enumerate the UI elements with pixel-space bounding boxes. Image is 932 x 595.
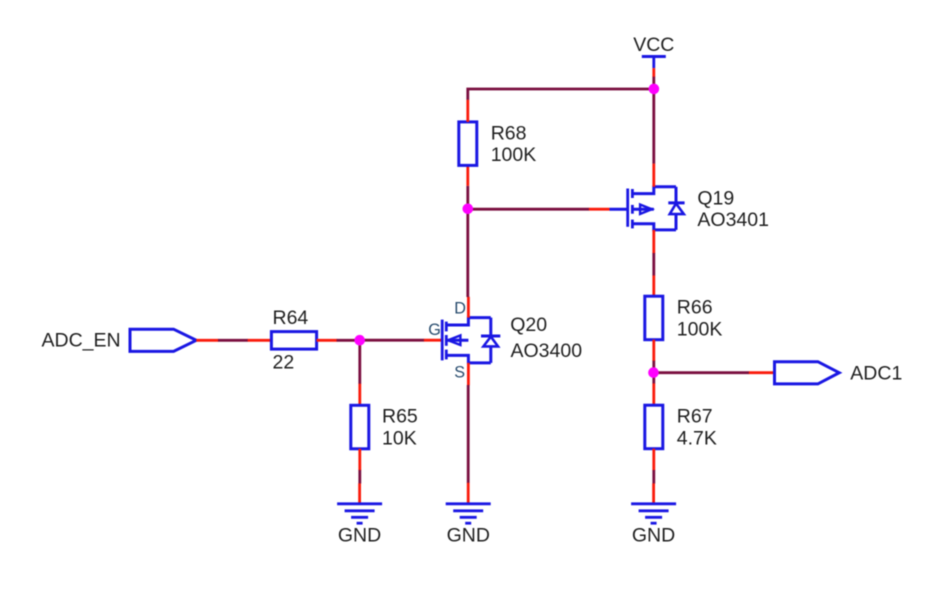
wire R65 to GND1 (358, 470, 361, 484)
value AO3401 (697, 209, 769, 231)
drain inner lead (bottom) (632, 224, 676, 230)
wire ADC1 node to flag (654, 371, 750, 374)
port flag ADC1 (775, 362, 840, 384)
transistor Q20 (AO3400 NMOS) (424, 297, 500, 386)
svg-text:S: S (454, 364, 465, 382)
pin 1 stub R68 (466, 100, 469, 122)
svg-text:GND: GND (338, 525, 381, 547)
junction node VCC rail (649, 84, 660, 95)
pin stub (ADC1 flag) (749, 371, 775, 374)
pin stub (ADC_EN flag tip) (196, 339, 218, 342)
svg-text:100K: 100K (677, 318, 723, 340)
wire R66 to R67 through ADC1 node (652, 361, 655, 384)
pin 1 stub R67 (652, 383, 655, 405)
label GND1 (338, 525, 381, 547)
channel segment bottom (631, 220, 634, 229)
wire R67 to GND3 (652, 470, 655, 484)
label GND2 (447, 525, 490, 547)
label R68 (491, 122, 527, 144)
svg-text:R66: R66 (677, 297, 713, 319)
gate pin stub Q19 (589, 208, 610, 211)
body diode branch (489, 318, 492, 336)
junction node ADC1 (648, 367, 659, 378)
pin name S (454, 364, 465, 382)
value AO3400 (511, 340, 583, 362)
resistor R66 (645, 296, 663, 340)
pin 1 stub R66 (652, 275, 655, 296)
svg-text:R67: R67 (677, 406, 713, 428)
svg-text:D: D (454, 300, 466, 318)
source pin stub Q20 (467, 363, 470, 385)
label GND3 (632, 525, 675, 547)
pin 2 stub R68 (466, 165, 469, 185)
pin 2 stub R65 (358, 449, 361, 471)
svg-text:R65: R65 (382, 406, 418, 428)
value 10K (382, 427, 417, 449)
svg-text:VCC: VCC (633, 34, 674, 56)
svg-text:AO3401: AO3401 (697, 209, 769, 231)
junction node A (R68/Q19 gate/Q20 drain) (463, 204, 474, 215)
gate lead blue (610, 208, 628, 211)
svg-text:R64: R64 (273, 307, 309, 329)
value 100K (491, 144, 537, 166)
channel segment middle (445, 335, 448, 346)
arrow on middle lead (446, 339, 468, 342)
ground GND2 (446, 483, 491, 523)
svg-text:10K: 10K (382, 427, 417, 449)
top pin stub Q19 (652, 164, 655, 187)
transistor Q19 (AO3401 PMOS) (589, 164, 685, 254)
value 22 (273, 352, 295, 374)
svg-text:GND: GND (447, 525, 490, 547)
net label ADC_EN text (42, 329, 121, 351)
pin name D (454, 300, 466, 318)
power symbol VCC (633, 34, 674, 77)
wire VCC to rail (652, 77, 655, 89)
label Q20 (510, 314, 547, 336)
label R67 (677, 406, 713, 428)
drain pin stub Q20 (467, 297, 470, 318)
svg-text:AO3400: AO3400 (511, 340, 583, 362)
svg-text:ADC1: ADC1 (850, 362, 902, 384)
port flag ADC_EN (130, 329, 196, 351)
gate pin stub Q20 (424, 339, 442, 342)
wire junction A to Q19 gate (468, 208, 589, 211)
svg-text:GND: GND (632, 525, 675, 547)
ground GND3 (631, 483, 676, 523)
drain inner lead (446, 318, 491, 325)
label R66 (677, 297, 713, 319)
svg-text:Q19: Q19 (697, 188, 734, 210)
channel segment middle (631, 205, 634, 214)
resistor R68 (459, 122, 477, 165)
junction node R64/R65/Q20 (354, 335, 365, 346)
resistor R65 (351, 405, 369, 449)
source inner lead (446, 355, 491, 363)
svg-text:ADC_EN: ADC_EN (42, 329, 121, 351)
pin name G (428, 321, 441, 339)
ground GND1 (337, 483, 382, 523)
bottom pin stub Q19 (652, 230, 655, 254)
svg-text:100K: 100K (491, 144, 537, 166)
value 4.7K (677, 427, 717, 449)
net label ADC1 text (850, 362, 902, 384)
label R64 (273, 307, 309, 329)
value 100K (677, 318, 723, 340)
wire R64 to junction (337, 339, 360, 342)
wire Q20 source to GND2 (467, 385, 470, 483)
pin 2 stub R67 (652, 449, 655, 471)
wire Q19 drain to R66 (652, 253, 655, 276)
wire ADC_EN to R64 (218, 339, 248, 342)
label Q19 (697, 188, 734, 210)
wire junction A down to Q20 drain (466, 209, 469, 297)
gate bar (441, 320, 444, 361)
svg-text:22: 22 (273, 352, 295, 374)
resistor R64 (271, 332, 316, 350)
wire junction A up to R68 (bottom pin side) (466, 186, 469, 209)
channel segment bottom (445, 350, 448, 360)
pin 1 stub R65 (358, 384, 361, 406)
source inner lead (top) (632, 187, 676, 194)
svg-text:Q20: Q20 (510, 314, 547, 336)
svg-text:G: G (428, 321, 441, 339)
channel segment top (631, 189, 634, 198)
wire junction to Q20 gate (360, 339, 425, 342)
body diode branch (675, 187, 678, 203)
wire junction down to R65 (358, 340, 361, 384)
gate bar (626, 189, 629, 227)
arrow on middle lead (632, 208, 653, 211)
wire R68 top to top rail corner (468, 89, 654, 100)
svg-text:4.7K: 4.7K (677, 427, 717, 449)
svg-text:R68: R68 (491, 122, 527, 144)
pin 2 stub R64 (317, 339, 337, 342)
wire rail down to Q19 (652, 89, 655, 164)
label R65 (382, 406, 418, 428)
pin 2 stub R66 (652, 340, 655, 361)
pin 1 stub R64 (248, 339, 272, 342)
resistor R67 (645, 405, 663, 449)
channel segment top (445, 322, 448, 332)
